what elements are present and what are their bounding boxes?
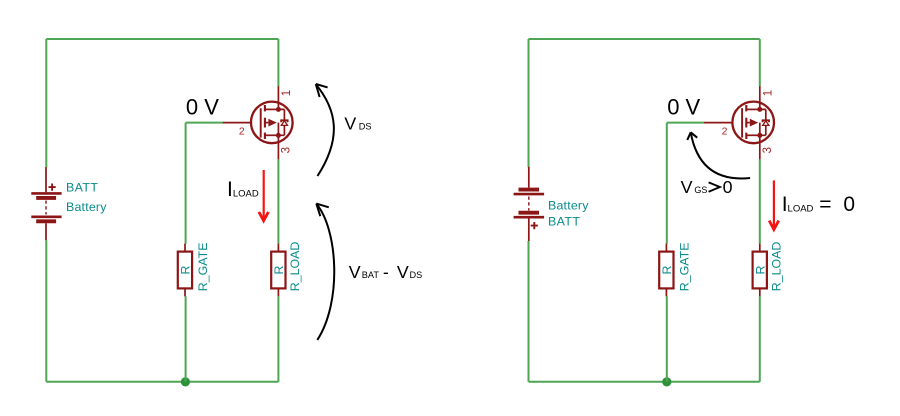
source junction dot <box>276 133 281 138</box>
battery dashed link <box>528 197 530 211</box>
resistor R4 R_LOAD right <box>753 244 767 297</box>
wire below R_GATE <box>185 296 187 382</box>
wire gate horizontal <box>186 122 223 124</box>
source junction dot <box>757 133 762 138</box>
svg-text:R: R <box>179 266 193 275</box>
R_GATE body <box>659 252 673 289</box>
wire below R_GATE right <box>666 296 668 382</box>
svg-text:BATT: BATT <box>66 181 98 195</box>
svg-text:2: 2 <box>239 126 245 138</box>
R_GATE body <box>178 252 192 289</box>
channel segment top <box>745 105 747 111</box>
pin 2 gate <box>223 122 251 124</box>
wire left rail upper right <box>528 39 530 167</box>
arrow V_GS <box>687 132 750 178</box>
body diode triangle <box>763 121 769 126</box>
R_GATE top pin <box>665 244 667 252</box>
mosfet body circle <box>251 102 293 144</box>
battery long plate 2 <box>31 216 61 219</box>
body diode triangle <box>281 121 287 126</box>
R_LOAD top pin <box>759 244 761 252</box>
svg-text:R_GATE: R_GATE <box>677 243 691 292</box>
R_GATE top pin <box>184 244 186 252</box>
wire left rail upper <box>45 39 47 168</box>
R_GATE bottom pin <box>665 288 667 296</box>
battery BT1 BATT <box>31 167 61 240</box>
wire gate horizontal right <box>667 122 705 124</box>
R_LOAD top pin <box>277 244 279 252</box>
wire gate vertical <box>185 123 187 244</box>
greater-than sign <box>709 182 720 191</box>
wire drain top <box>277 39 279 86</box>
svg-text:VBAT-VDS: VBAT-VDS <box>349 262 423 282</box>
pin 1 drain <box>277 86 279 109</box>
svg-text:R_LOAD: R_LOAD <box>288 242 302 292</box>
battery top pin <box>528 167 530 188</box>
channel segment middle <box>745 118 747 128</box>
R_LOAD body <box>753 252 767 289</box>
battery dashed link <box>45 201 47 215</box>
wire drain top right <box>759 39 761 86</box>
svg-text:0 V: 0 V <box>186 94 219 119</box>
wire left rail lower right <box>528 241 530 382</box>
R_LOAD bottom pin <box>277 288 279 296</box>
wire top rail right <box>529 38 760 40</box>
wire below R_LOAD <box>277 296 279 382</box>
wire left rail lower <box>45 240 47 381</box>
svg-text:VDS: VDS <box>344 114 371 134</box>
svg-text:ILOAD: ILOAD <box>782 193 814 216</box>
body diode wire upper <box>760 109 766 120</box>
transistor Q1 MOSFET <box>223 86 293 160</box>
channel segment bottom <box>745 133 747 139</box>
pin 1 drain <box>759 86 761 109</box>
battery top pin <box>45 167 47 192</box>
svg-text:1: 1 <box>281 90 293 96</box>
svg-text:R: R <box>753 266 767 275</box>
R_LOAD body <box>271 252 285 289</box>
resistor R2 R_LOAD <box>271 244 285 297</box>
pin 2 gate <box>704 122 732 124</box>
wire below R_LOAD right <box>759 296 761 382</box>
body diode cathode bar <box>281 120 287 122</box>
svg-text:R: R <box>660 266 674 275</box>
svg-text:1: 1 <box>762 90 774 96</box>
substrate stub <box>265 122 269 124</box>
battery plus sign <box>49 184 56 191</box>
svg-text:R_GATE: R_GATE <box>196 243 210 292</box>
junction <box>181 377 190 386</box>
pin 3 source <box>759 135 761 159</box>
svg-text:R_LOAD: R_LOAD <box>769 242 783 292</box>
pin 3 source <box>277 135 279 159</box>
svg-text:BATT: BATT <box>548 215 580 229</box>
svg-text:VGS0: VGS0 <box>681 177 733 197</box>
wire source to load <box>277 159 279 244</box>
R_LOAD bottom pin <box>759 288 761 296</box>
battery BT2 BATT (flipped) <box>514 167 545 241</box>
wire top rail left <box>46 38 278 40</box>
drain junction dot <box>757 107 762 112</box>
RIGHT CIRCUIT <box>514 39 855 387</box>
LEFT CIRCUIT <box>31 39 422 387</box>
svg-text:0 V: 0 V <box>667 94 700 119</box>
transistor Q2 MOSFET <box>704 86 774 160</box>
svg-text:Battery: Battery <box>66 200 107 214</box>
current arrow I_LOAD <box>259 170 269 221</box>
svg-text:R: R <box>272 266 286 275</box>
svg-text:Battery: Battery <box>548 199 589 213</box>
channel segment top <box>264 105 266 111</box>
wire gate vertical right <box>666 123 668 244</box>
substrate to source line <box>759 123 761 136</box>
R_GATE bottom pin <box>184 288 186 296</box>
svg-text:3: 3 <box>280 147 292 153</box>
junction right <box>662 377 671 386</box>
substrate stub <box>746 122 750 124</box>
arrow V_DS <box>316 84 334 176</box>
substrate to source line <box>277 123 279 136</box>
battery bottom pin <box>45 223 47 240</box>
resistor R1 R_GATE <box>178 244 192 297</box>
current arrow I_LOAD right <box>769 180 779 229</box>
gate bar <box>741 108 743 137</box>
channel segment bottom <box>264 133 266 139</box>
wire bottom rail <box>46 381 278 383</box>
battery short plate 2 <box>519 211 540 215</box>
resistor R3 R_GATE right <box>659 244 673 297</box>
substrate arrow <box>750 119 758 127</box>
battery short plate 2 <box>36 219 56 223</box>
svg-text:2: 2 <box>722 126 728 138</box>
mosfet body circle <box>732 102 774 144</box>
battery long plate 1 <box>31 192 61 195</box>
channel segment middle <box>264 118 266 128</box>
svg-text:ILOAD: ILOAD <box>227 178 259 201</box>
battery bottom pin <box>528 218 530 241</box>
battery plus sign <box>531 222 538 229</box>
svg-text:=0: =0 <box>819 193 855 216</box>
wire source to load right <box>759 159 761 244</box>
battery short plate 1 <box>36 196 56 200</box>
wire bottom rail right <box>529 381 760 383</box>
svg-text:3: 3 <box>762 147 774 153</box>
arrow V_BAT minus V_DS <box>316 204 334 340</box>
body diode wire lower <box>278 125 284 135</box>
body diode cathode bar <box>763 120 769 122</box>
battery long plate 1 <box>514 193 545 196</box>
substrate arrow <box>268 119 276 127</box>
body diode wire lower <box>760 125 766 135</box>
drain junction dot <box>276 107 281 112</box>
source link <box>746 134 760 136</box>
drain link <box>746 108 760 110</box>
battery short plate 1 <box>519 188 540 192</box>
battery long plate 2 <box>514 216 545 219</box>
source link <box>265 134 279 136</box>
drain link <box>265 108 279 110</box>
body diode wire upper <box>278 109 284 120</box>
gate bar <box>260 108 262 137</box>
